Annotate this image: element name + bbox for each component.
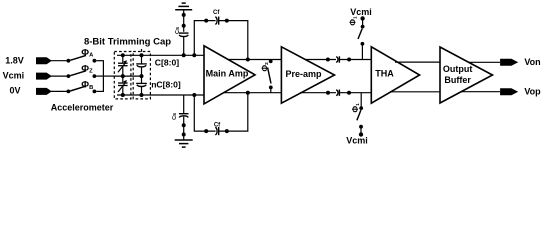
input terminal arrow 0V bbox=[36, 88, 51, 94]
wire bus to trimming caps bbox=[103, 75, 115, 77]
svg-text:Cs: Cs bbox=[175, 27, 181, 34]
node dot bbox=[347, 91, 351, 95]
op-amp Output Buffer bbox=[440, 47, 493, 103]
svg-text:Cf: Cf bbox=[214, 123, 221, 129]
node dot C rail / feedback bbox=[192, 53, 196, 57]
ground top bbox=[175, 3, 192, 10]
node dot bbox=[182, 133, 186, 137]
switch PhiA bbox=[67, 55, 104, 62]
svg-text:Cs: Cs bbox=[172, 113, 178, 120]
capacitor Cf top bbox=[215, 17, 218, 25]
feedback wire bottom bbox=[194, 95, 215, 131]
switch Phi2 (reset across main amp outputs) bbox=[268, 59, 273, 92]
node dots on nC rail bbox=[121, 93, 125, 97]
svg-text:0V: 0V bbox=[9, 86, 20, 96]
wire main amp out bottom bbox=[222, 92, 281, 94]
wire row2 bbox=[51, 75, 67, 77]
svg-text:1.8V: 1.8V bbox=[5, 56, 24, 66]
wire nC[8:0] rail bbox=[117, 94, 204, 96]
wire pre-amp out bottom bbox=[300, 92, 336, 94]
node dot bbox=[347, 58, 351, 62]
capacitor Cs bottom bbox=[179, 114, 189, 140]
node dot C rail / Cs bbox=[182, 53, 186, 57]
switch PhiB bbox=[67, 86, 104, 93]
wire THA out top bbox=[395, 61, 440, 63]
op-amp Main Amp bbox=[204, 46, 255, 104]
trimming cap dashed box left bbox=[114, 52, 131, 99]
switch PhiZ bbox=[67, 71, 104, 78]
switch Phi1 bottom bbox=[357, 93, 363, 135]
trimming capacitor fixed bottom bbox=[136, 76, 147, 95]
svg-text:8-Bit Trimming Cap: 8-Bit Trimming Cap bbox=[84, 36, 171, 47]
svg-text:Cf: Cf bbox=[213, 10, 220, 16]
node dots on mid rail bbox=[121, 74, 125, 78]
wire row3 bbox=[51, 90, 67, 92]
node dot bbox=[225, 19, 229, 23]
node dot bbox=[326, 58, 330, 62]
trimming capacitor variable bottom bbox=[118, 76, 128, 95]
svg-text:Buffer: Buffer bbox=[444, 75, 471, 85]
wire mid rail inside box bbox=[115, 75, 142, 77]
svg-text:Vcmi: Vcmi bbox=[3, 71, 25, 81]
op-amp THA bbox=[371, 47, 419, 103]
svg-text:nC[8:0]: nC[8:0] bbox=[151, 80, 181, 90]
wire row1 bbox=[51, 60, 67, 62]
node dot bbox=[225, 129, 229, 133]
wire main amp out top bbox=[226, 59, 281, 61]
node dots on C rail bbox=[121, 53, 125, 57]
svg-text:Output: Output bbox=[443, 64, 473, 74]
node dot bbox=[182, 123, 186, 127]
output terminal arrow Von bbox=[501, 59, 518, 65]
Vcmi top pin bbox=[360, 16, 364, 20]
node dot feedback/output bottom bbox=[246, 91, 250, 95]
node dot bbox=[182, 13, 186, 17]
capacitor Cf bottom bbox=[215, 127, 218, 135]
node dot nC rail / feedback bbox=[192, 93, 196, 97]
feedback wire top bbox=[194, 21, 215, 56]
wire nC rail to sampling cap bottom bbox=[183, 95, 185, 114]
node dot bbox=[182, 24, 186, 28]
input terminal arrow Vcmi bbox=[36, 73, 51, 79]
capacitor Cs top bbox=[179, 33, 189, 55]
svg-text:Pre-amp: Pre-amp bbox=[285, 69, 322, 79]
svg-text:Accelerometer: Accelerometer bbox=[51, 102, 114, 112]
svg-text:Von: Von bbox=[524, 57, 540, 67]
input terminal arrow 1.8V bbox=[36, 58, 51, 64]
switch Phi1 top bbox=[358, 18, 365, 59]
trimming capacitor fixed top bbox=[136, 49, 147, 76]
svg-text:THA: THA bbox=[375, 68, 394, 78]
wire buffer out bottom bbox=[461, 91, 500, 93]
wire cap to THA top bbox=[339, 59, 371, 61]
svg-text:Main Amp: Main Amp bbox=[206, 69, 249, 79]
wire buffer out top bbox=[468, 61, 500, 63]
node dot bbox=[204, 19, 208, 23]
node dot feedback/output top bbox=[246, 58, 250, 62]
wire THA out bottom bbox=[390, 91, 440, 93]
op-amp Pre-amp bbox=[281, 47, 334, 103]
node dot bbox=[204, 129, 208, 133]
svg-text:Vop: Vop bbox=[524, 86, 541, 96]
wire C[8:0] rail bbox=[117, 54, 204, 56]
node dot bbox=[326, 91, 330, 95]
wire cap to THA bottom bbox=[339, 92, 371, 94]
Vcmi bottom pin bbox=[359, 132, 363, 136]
wire pre-amp out top bbox=[305, 59, 336, 61]
svg-text:Vcmi: Vcmi bbox=[346, 135, 368, 145]
coupling capacitor top bbox=[336, 56, 339, 62]
ground bottom bbox=[175, 140, 193, 147]
wire ground to sampling cap top bbox=[183, 10, 185, 32]
svg-text:Vcmi: Vcmi bbox=[350, 7, 372, 17]
svg-text:C[8:0]: C[8:0] bbox=[155, 58, 179, 68]
trimming cap dashed box right bbox=[133, 52, 150, 99]
coupling capacitor bottom bbox=[336, 90, 339, 96]
output terminal arrow Vop bbox=[501, 89, 518, 95]
bus joining the three switch outputs bbox=[102, 61, 104, 92]
trimming capacitor variable top bbox=[118, 55, 128, 76]
